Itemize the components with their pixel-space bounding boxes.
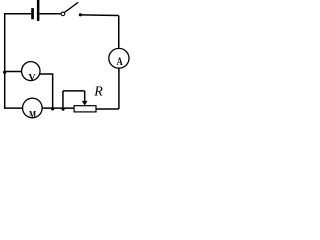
junction dot slider branch / motor wire xyxy=(62,108,65,111)
junction dot left rail / voltmeter branch xyxy=(3,71,6,74)
battery B1 left plate (short thick) xyxy=(31,8,34,19)
junction dot voltmeter branch / motor wire xyxy=(51,107,54,110)
switch S1 blade (open) xyxy=(65,2,79,12)
wire top-left horizontal (battery to left rail) xyxy=(4,13,31,15)
ammeter A1 circle xyxy=(109,48,129,68)
battery B1 right plate (long) xyxy=(37,0,40,21)
rheostat R body (resistor box) xyxy=(74,106,96,112)
svg-text:A: A xyxy=(117,54,123,68)
wire voltmeter branch left xyxy=(5,71,22,73)
svg-text:R: R xyxy=(93,84,103,99)
wire slider branch vertical xyxy=(62,91,64,109)
wire slider bracket horizontal xyxy=(63,90,85,92)
wire rheostat to motor xyxy=(42,107,74,109)
wire left rail vertical xyxy=(4,13,6,109)
wire motor to left rail xyxy=(4,107,23,109)
wire right rail lower (ammeter down to bottom corner) xyxy=(118,68,120,109)
switch S1 left contact (open circle) xyxy=(61,12,65,16)
voltmeter V1 circle xyxy=(22,62,40,81)
motor M1 circle xyxy=(23,98,43,118)
wire slider shaft vertical xyxy=(84,91,86,101)
wire voltmeter branch right xyxy=(40,73,53,75)
wire right rail upper (corner down to ammeter) xyxy=(118,16,120,49)
wire battery to switch xyxy=(39,13,61,15)
rheostat slider arrowhead xyxy=(82,101,88,106)
svg-text:M: M xyxy=(29,109,36,121)
switch S1 right contact (dot) xyxy=(79,13,82,16)
wire switch to top-right corner xyxy=(82,14,119,17)
wire mid vertical from voltmeter down to motor wire xyxy=(52,73,54,108)
wire bottom-right horizontal (corner to rheostat) xyxy=(96,108,119,110)
svg-text:V: V xyxy=(29,73,36,84)
